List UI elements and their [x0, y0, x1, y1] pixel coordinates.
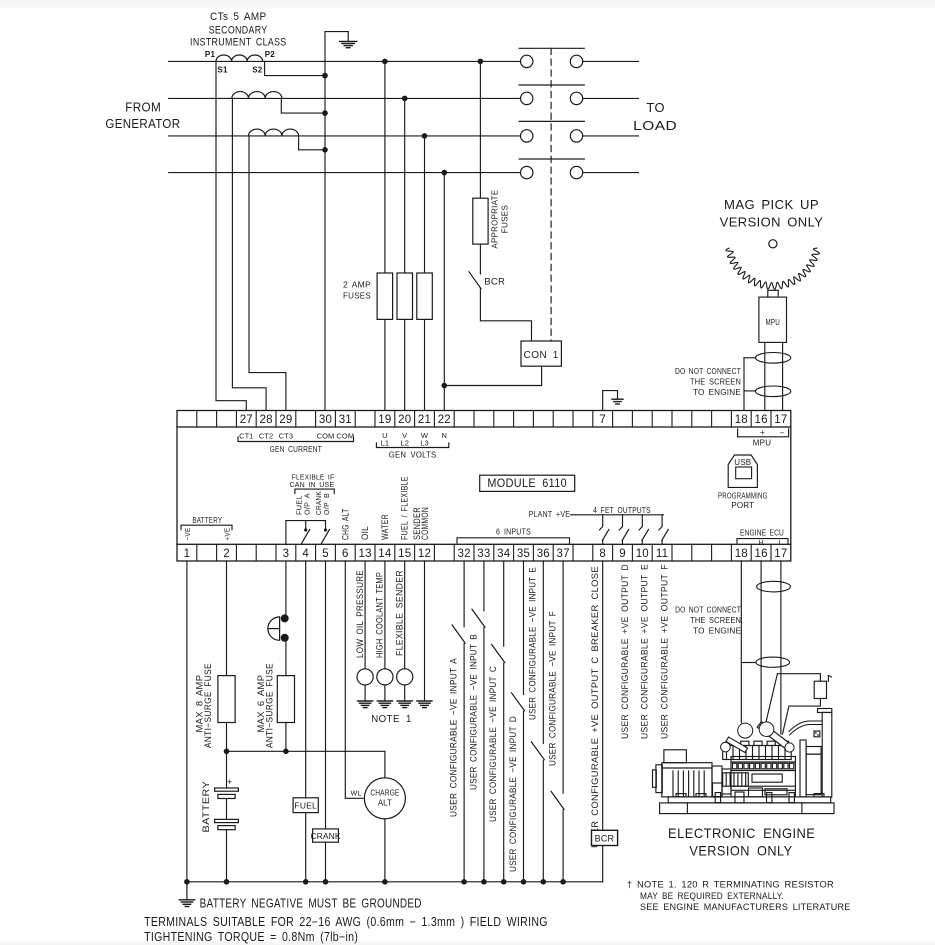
svg-text:TO ENGINE: TO ENGINE — [693, 388, 741, 397]
svg-text:GEN CURRENT: GEN CURRENT — [270, 444, 322, 454]
wire CT3 S2 to CT common — [299, 136, 325, 150]
label FROM GENERATOR — [105, 100, 180, 131]
junction bus at CRANK — [323, 879, 329, 885]
svg-text:ANTI−SURGE FUSE: ANTI−SURGE FUSE — [203, 663, 213, 748]
ground coolant sender — [377, 685, 392, 708]
junction bus at FUEL — [303, 879, 309, 885]
svg-text:36: 36 — [537, 548, 550, 560]
bracket FLEXIBLE IF CAN IN USE — [290, 472, 335, 493]
label PLANT +VE with feed line — [529, 505, 664, 519]
svg-text:13: 13 — [358, 548, 371, 560]
wire terminal 15 to flexible sender — [404, 561, 406, 669]
svg-text:USER CONFIGURABLE −VE INPUT F: USER CONFIGURABLE −VE INPUT F — [548, 611, 559, 766]
sender flexible — [397, 669, 413, 685]
svg-text:CAN IN USE: CAN IN USE — [290, 480, 335, 489]
svg-text:−: − — [779, 428, 784, 437]
wire neutral N to load — [583, 172, 639, 174]
svg-text:OIL: OIL — [360, 526, 370, 540]
wire terminal 36 input E — [542, 561, 544, 744]
current transformer CT1 (P1 P2 S1 S2) — [205, 50, 275, 75]
wire 8A fuse to +VE node — [226, 723, 228, 752]
svg-text:CT2: CT2 — [259, 432, 273, 441]
module label MODULE 6110 — [480, 475, 575, 491]
svg-text:VERSION ONLY: VERSION ONLY — [720, 216, 824, 230]
svg-text:USB: USB — [734, 458, 751, 467]
screen ellipse upper — [755, 353, 790, 364]
wire phase L1 to load — [583, 60, 639, 62]
FET output switch terminal 11 — [659, 515, 668, 545]
wire terminal 7 to chassis ground — [603, 391, 618, 411]
relay contact O/P A (terminal 4) — [302, 521, 310, 544]
svg-text:SECONDARY: SECONDARY — [209, 24, 268, 36]
svg-text:30: 30 — [319, 414, 332, 426]
fuse F2 2A (L2) — [397, 273, 413, 319]
svg-text:WL: WL — [351, 791, 362, 798]
wire battery to ground bus — [226, 830, 228, 882]
wire terminal 2 to 8A fuse — [226, 561, 228, 676]
charge alternator — [364, 778, 405, 819]
svg-text:ANTI−SURGE FUSE: ANTI−SURGE FUSE — [265, 663, 275, 748]
junction L1 sense tap — [382, 59, 388, 65]
circuit breaker 4-pole — [519, 48, 584, 179]
bracket MPU + - — [738, 428, 789, 447]
bracket ENGINE ECU H L — [737, 527, 788, 546]
svg-text:12: 12 — [418, 548, 431, 560]
label FUEL O/P A — [294, 493, 311, 515]
svg-text:16: 16 — [754, 548, 767, 560]
wire terminal 18 screen to engine — [741, 561, 756, 723]
junction bus input C — [501, 879, 507, 885]
wire L1 sense to terminal 19 — [384, 61, 386, 410]
generator set engine drawing — [653, 709, 835, 814]
svg-text:TO ENGINE: TO ENGINE — [693, 627, 741, 636]
svg-text:LOAD: LOAD — [633, 119, 677, 133]
label MAX 8 AMP ANTI-SURGE FUSE — [194, 663, 213, 748]
svg-text:14: 14 — [378, 548, 392, 560]
wire terminal 16 CAN H to engine — [760, 561, 762, 722]
screen ellipse engine lower — [756, 657, 790, 667]
svg-text:ENGINE ECU: ENGINE ECU — [740, 527, 784, 537]
svg-text:FLEXIBLE SENDER: FLEXIBLE SENDER — [395, 570, 406, 656]
wire +VE node rail — [227, 751, 385, 778]
svg-text:29: 29 — [279, 414, 292, 426]
fuse F1 2A (L1) — [377, 273, 393, 319]
svg-text:MAG PICK UP: MAG PICK UP — [724, 198, 819, 212]
connector CON 1 — [521, 341, 561, 366]
svg-text:6 INPUTS: 6 INPUTS — [496, 526, 531, 536]
svg-text:USER CONFIGURABLE +VE OUTPUT E: USER CONFIGURABLE +VE OUTPUT E — [640, 564, 651, 739]
title CTs 5 AMP SECONDARY INSTRUMENT CLASS — [190, 11, 287, 49]
wire CT1 S2 to CT common — [265, 61, 325, 75]
svg-text:7: 7 — [599, 414, 606, 426]
svg-text:COM: COM — [336, 432, 354, 441]
svg-text:USER CONFIGURABLE +VE OUTPUT C: USER CONFIGURABLE +VE OUTPUT C BREAKER C… — [590, 566, 601, 848]
switch input F — [551, 791, 564, 809]
svg-text:USER CONFIGURABLE +VE OUTPUT D: USER CONFIGURABLE +VE OUTPUT D — [620, 564, 631, 739]
relay FUEL — [293, 798, 318, 813]
svg-text:FUSES: FUSES — [500, 205, 510, 234]
svg-text:PORT: PORT — [731, 501, 754, 510]
wire pushbutton to 6A fuse — [285, 638, 287, 676]
svg-text:37: 37 — [556, 548, 569, 560]
svg-text:CT3: CT3 — [279, 432, 293, 441]
ground flexible sender — [397, 685, 412, 708]
wire phase L1 from generator — [169, 60, 521, 62]
wire BCR to CON 1 — [480, 289, 531, 341]
junction CT2 S2 / common — [322, 110, 328, 116]
svg-text:17: 17 — [774, 548, 787, 560]
svg-text:GENERATOR: GENERATOR — [105, 117, 180, 131]
current transformer CT2 — [232, 92, 282, 99]
junction bus input E — [541, 879, 547, 885]
svg-text:USER CONFIGURABLE −VE INPUT A: USER CONFIGURABLE −VE INPUT A — [449, 658, 460, 817]
label CRANK O/P B — [314, 491, 331, 515]
breaker linkage (dashed) to CON 1 — [550, 48, 552, 341]
svg-text:21: 21 — [418, 414, 431, 426]
wire N sense to terminal 22 — [443, 173, 445, 411]
label ELECTRONIC ENGINE VERSION ONLY — [668, 825, 815, 858]
sender high coolant temp — [377, 669, 393, 685]
gear tooth sensing target — [726, 240, 820, 290]
svg-text:4 FET OUTPUTS: 4 FET OUTPUTS — [593, 505, 651, 515]
svg-text:1: 1 — [184, 548, 191, 560]
svg-text:USER CONFIGURABLE −VE INPUT B: USER CONFIGURABLE −VE INPUT B — [468, 634, 479, 790]
FET output switch terminal 8 — [600, 515, 609, 545]
svg-text:THE SCREEN: THE SCREEN — [690, 616, 741, 625]
wire terminal 12 sender common to ground — [424, 561, 426, 701]
svg-text:18: 18 — [735, 414, 748, 426]
svg-text:BATTERY: BATTERY — [192, 515, 222, 525]
svg-text:+: + — [760, 428, 765, 437]
FET output switch terminal 10 — [639, 515, 648, 545]
ground sender common — [417, 700, 432, 702]
svg-text:CTs 5 AMP: CTs 5 AMP — [210, 11, 267, 23]
wire CON 1 to neutral sense — [444, 366, 541, 385]
ground terminal 7 — [612, 398, 623, 400]
label TO LOAD — [633, 101, 677, 133]
junction +VE node terminal 3 — [283, 749, 289, 755]
wire terminal 17 CAN L to engine — [780, 561, 782, 734]
svg-text:18: 18 — [735, 548, 748, 560]
svg-text:33: 33 — [477, 548, 490, 560]
label APPROPRIATE FUSES — [490, 190, 510, 249]
svg-text:MPU: MPU — [765, 318, 780, 327]
svg-text:H: H — [758, 540, 763, 547]
junction bus input B — [481, 879, 487, 885]
junction CT1 S2 / common — [322, 73, 328, 79]
relay CRANK — [310, 829, 340, 842]
svg-text:FUEL: FUEL — [294, 800, 317, 810]
relay BCR breaker close — [592, 830, 618, 845]
current transformer CT3 — [249, 129, 299, 136]
switch input E — [531, 742, 544, 760]
svg-text:22: 22 — [438, 414, 451, 426]
sender low oil pressure — [357, 669, 373, 685]
svg-text:COMMON: COMMON — [420, 507, 430, 540]
svg-text:APPROPRIATE: APPROPRIATE — [490, 190, 500, 249]
wire charge alt to ground bus — [384, 819, 386, 882]
junction L2 sense tap — [402, 96, 408, 102]
note DO NOT CONNECT THE SCREEN TO ENGINE (top) — [675, 367, 741, 397]
relay contact O/P B (terminal 5) — [321, 521, 329, 544]
svg-text:NOTE 1: NOTE 1 — [371, 714, 412, 725]
wire neutral N from generator — [169, 172, 521, 174]
svg-text:USER CONFIGURABLE −VE INPUT E: USER CONFIGURABLE −VE INPUT E — [528, 567, 539, 720]
ground oil sender — [358, 685, 373, 708]
terminal strip lower (1 2 3 4 5 6 13 14 15 12 32-37 8 9 10 11 18 16 17) — [177, 544, 791, 561]
wire CT1 S1 to terminal 27 — [216, 61, 246, 410]
svg-text:2 AMP: 2 AMP — [343, 280, 371, 290]
svg-text:CT1: CT1 — [239, 432, 253, 441]
junction +VE node terminal 2 — [224, 749, 230, 755]
junction bus at battery — [224, 879, 230, 885]
svg-text:CRANK: CRANK — [310, 831, 340, 841]
labels CT1 CT2 CT3 COM COM — [239, 432, 354, 441]
svg-text:DO NOT CONNECT: DO NOT CONNECT — [675, 606, 741, 615]
wire input B to ground bus — [483, 628, 485, 882]
label MAG PICK UP VERSION ONLY — [720, 198, 824, 230]
svg-text:17: 17 — [774, 414, 787, 426]
wire +VE node to battery — [226, 751, 228, 788]
svg-text:CHARGE: CHARGE — [370, 789, 399, 798]
engine ECU box — [814, 676, 831, 699]
junction bus input F — [560, 879, 566, 885]
wire CT2 S1 to terminal 28 — [232, 98, 266, 410]
fuse MAX 6 AMP ANTI-SURGE — [277, 676, 294, 723]
wire engine ECU lower — [783, 699, 821, 735]
svg-text:CHG ALT: CHG ALT — [340, 508, 350, 540]
wire input D to ground bus — [523, 711, 525, 881]
note terminating resistor — [627, 880, 851, 914]
svg-text:MPU: MPU — [753, 439, 771, 448]
svg-text:ALT: ALT — [378, 799, 392, 808]
junction N / CON1 return — [442, 383, 448, 389]
wire MPU + to terminal 16 — [764, 342, 766, 410]
screen ellipse engine upper — [757, 581, 791, 592]
svg-text:4: 4 — [302, 548, 309, 560]
wire terminal 4 to FUEL relay box — [305, 561, 307, 798]
wire 6A fuse to +VE node — [285, 723, 287, 752]
wire CT common to terminal 30 and earth — [325, 32, 348, 411]
wire CT3 S1 to terminal 29 — [249, 136, 286, 411]
wire MPU - to terminal 17 — [782, 342, 784, 410]
wire input E to ground bus — [542, 760, 544, 882]
battery negative ground — [179, 882, 195, 907]
svg-text:TIGHTENING TORQUE = 0.8Nm (7lb: TIGHTENING TORQUE = 0.8Nm (7lb−in) — [144, 930, 358, 944]
svg-text:27: 27 — [240, 414, 253, 426]
svg-text:ELECTRONIC ENGINE: ELECTRONIC ENGINE — [668, 825, 815, 841]
switch input D — [512, 693, 525, 711]
wire terminal 37 input F — [562, 561, 564, 793]
junction L3 sense tap — [422, 133, 428, 139]
svg-text:11: 11 — [656, 548, 668, 560]
svg-text:8: 8 — [599, 548, 606, 560]
wire terminal 33 input B — [483, 561, 485, 611]
svg-text:USER CONFIGURABLE +VE OUTPUT F: USER CONFIGURABLE +VE OUTPUT F — [659, 564, 670, 739]
wire terminal 8 output C to BCR relay — [602, 561, 604, 831]
svg-text:9: 9 — [619, 548, 626, 560]
svg-text:L1: L1 — [381, 438, 390, 447]
junction bus input D — [521, 879, 527, 885]
svg-text:COM: COM — [317, 432, 335, 441]
label SENDER COMMON — [412, 507, 430, 540]
switch BCR (breaker closed aux) — [469, 272, 481, 289]
svg-text:GEN VOLTS: GEN VOLTS — [389, 450, 437, 460]
wire terminal 32 input A — [463, 561, 465, 627]
svg-text:WATER: WATER — [380, 514, 390, 540]
svg-text:3: 3 — [283, 548, 290, 560]
wire terminal 5 to CRANK relay box — [325, 561, 327, 829]
wire phase L2 from generator — [169, 97, 521, 99]
svg-text:USER CONFIGURABLE −VE INPUT D: USER CONFIGURABLE −VE INPUT D — [508, 716, 519, 872]
svg-text:LOW OIL PRESSURE: LOW OIL PRESSURE — [355, 570, 366, 658]
svg-text:MODULE 6110: MODULE 6110 — [487, 478, 567, 490]
emergency stop pushbutton — [268, 614, 289, 641]
junction BCR tap on L1 — [478, 59, 484, 65]
junction N sense tap — [442, 170, 448, 176]
svg-text:L3: L3 — [420, 438, 429, 447]
wire terminal 35 input D — [523, 561, 525, 695]
svg-text:TO: TO — [646, 101, 665, 115]
wire fuse to BCR switch — [479, 244, 481, 274]
bracket GEN VOLTS — [376, 443, 448, 460]
svg-text:BATTERY NEGATIVE MUST BE GROUN: BATTERY NEGATIVE MUST BE GROUNDED — [200, 896, 422, 910]
wire L1 to appropriate fuse — [479, 61, 481, 198]
svg-text:32: 32 — [457, 548, 470, 560]
svg-text:USER CONFIGURABLE −VE INPUT C: USER CONFIGURABLE −VE INPUT C — [488, 666, 499, 822]
svg-text:N: N — [442, 431, 448, 440]
svg-text:VERSION ONLY: VERSION ONLY — [689, 842, 792, 858]
note DO NOT CONNECT THE SCREEN TO ENGINE (bottom) — [675, 606, 741, 636]
wire L3 sense to terminal 21 — [424, 136, 426, 411]
wire L2 sense to terminal 20 — [404, 98, 406, 410]
svg-text:DO NOT CONNECT: DO NOT CONNECT — [675, 367, 741, 376]
svg-text:15: 15 — [398, 548, 411, 560]
svg-text:35: 35 — [517, 548, 530, 560]
wire CT2 S2 to CT common — [281, 98, 325, 113]
wire phase L3 to load — [583, 135, 639, 137]
fuse appropriate fuses — [473, 198, 488, 244]
svg-text:−VE: −VE — [185, 528, 192, 541]
svg-text:28: 28 — [259, 414, 272, 426]
wire input F to ground bus — [562, 810, 564, 882]
USB programming port — [718, 455, 768, 510]
module body outline — [177, 427, 791, 544]
svg-text:16: 16 — [754, 414, 767, 426]
svg-text:MAY BE REQUIRED EXTERNALLY.: MAY BE REQUIRED EXTERNALLY. — [640, 891, 784, 902]
labels U V W N / L1 L2 L3 — [381, 431, 447, 447]
wire BCR to ground bus — [602, 846, 604, 882]
svg-text:19: 19 — [378, 414, 391, 426]
svg-text:6: 6 — [342, 548, 349, 560]
svg-text:O/P B: O/P B — [322, 493, 331, 515]
junction CT3 S2 / common — [322, 147, 328, 153]
svg-text:L2: L2 — [400, 438, 409, 447]
screen ellipse lower — [755, 386, 790, 397]
svg-text:O/P A: O/P A — [302, 493, 311, 515]
svg-text:HIGH COOLANT TEMP: HIGH COOLANT TEMP — [375, 572, 386, 658]
svg-text:S1: S1 — [217, 66, 228, 75]
svg-text:PROGRAMMING: PROGRAMMING — [718, 492, 768, 501]
wire terminal 1 to ground bus — [186, 561, 188, 882]
junction bus at terminal 1 — [184, 879, 190, 885]
svg-text:† NOTE 1. 120 R TERMINATING RE: † NOTE 1. 120 R TERMINATING RESISTOR — [627, 880, 834, 891]
svg-text:10: 10 — [636, 548, 649, 560]
svg-text:PLANT +VE: PLANT +VE — [529, 509, 570, 519]
svg-text:20: 20 — [398, 414, 411, 426]
switch input A — [452, 625, 465, 643]
svg-text:34: 34 — [497, 548, 511, 560]
wire screen to terminal 18 — [744, 358, 756, 411]
wire input A to ground bus — [463, 644, 465, 882]
bracket GEN CURRENT — [238, 437, 354, 454]
ground bus battery negative — [187, 881, 603, 883]
wire phase L3 from generator — [169, 135, 521, 137]
relay outputs A/B common from terminal 3 — [286, 521, 326, 545]
svg-text:FROM: FROM — [125, 100, 161, 114]
svg-text:SEE ENGINE MANUFACTURERS LITER: SEE ENGINE MANUFACTURERS LITERATURE — [640, 902, 851, 913]
svg-text:2: 2 — [223, 548, 230, 560]
svg-text:CON 1: CON 1 — [524, 350, 559, 361]
svg-text:+: + — [227, 777, 233, 787]
svg-text:5: 5 — [322, 548, 329, 560]
earth ground CT common — [340, 32, 357, 48]
svg-text:31: 31 — [339, 414, 352, 426]
svg-text:INSTRUMENT CLASS: INSTRUMENT CLASS — [190, 37, 287, 49]
wire terminal 34 input C — [503, 561, 505, 646]
svg-text:FUEL / FLEXIBLE: FUEL / FLEXIBLE — [400, 476, 410, 540]
fuse MAX 8 AMP ANTI-SURGE — [218, 676, 235, 723]
bracket 6 INPUTS — [457, 526, 570, 543]
wire terminal 14 to coolant sender — [384, 561, 386, 669]
svg-text:THE SCREEN: THE SCREEN — [690, 377, 741, 386]
svg-text:P2: P2 — [265, 50, 276, 59]
svg-text:L: L — [779, 540, 783, 547]
terminal strip upper (27 28 29 30 31 19 20 21 22 7 18 16 17) — [177, 411, 791, 428]
bracket BATTERY with -VE +VE — [181, 515, 232, 541]
svg-text:S2: S2 — [252, 66, 263, 75]
magnetic pickup MPU — [759, 290, 787, 342]
svg-text:+VE: +VE — [225, 528, 232, 541]
svg-text:P1: P1 — [205, 50, 216, 59]
wire FUEL to ground bus — [305, 813, 307, 882]
svg-text:BCR: BCR — [484, 277, 505, 288]
junction bus at charge alt — [382, 879, 388, 885]
wire terminal 3 to emergency stop — [285, 561, 287, 618]
svg-text:BATTERY: BATTERY — [201, 781, 212, 833]
switch input C — [492, 645, 505, 663]
label MAX 6 AMP ANTI-SURGE FUSE — [256, 663, 275, 748]
FET output switch terminal 9 — [619, 515, 628, 545]
junction bus input A — [461, 879, 467, 885]
svg-text:BCR: BCR — [595, 834, 615, 844]
wire terminal 6 to charge alternator WL — [345, 561, 364, 798]
wire CRANK to ground bus — [325, 842, 327, 882]
svg-text:FUSES: FUSES — [343, 291, 371, 301]
wire phase L2 to load — [583, 97, 639, 99]
label 2 AMP FUSES — [343, 280, 371, 301]
svg-text:TERMINALS SUITABLE FOR 22−16 A: TERMINALS SUITABLE FOR 22−16 AWG (0.6mm … — [144, 915, 548, 929]
wire input C to ground bus — [503, 663, 505, 882]
battery 12V — [215, 777, 239, 830]
wire terminal 13 to oil sender — [364, 561, 366, 669]
wire engine ECU upper — [765, 674, 821, 729]
switch input B — [472, 609, 485, 627]
fuse F3 2A (L3) — [417, 273, 433, 319]
